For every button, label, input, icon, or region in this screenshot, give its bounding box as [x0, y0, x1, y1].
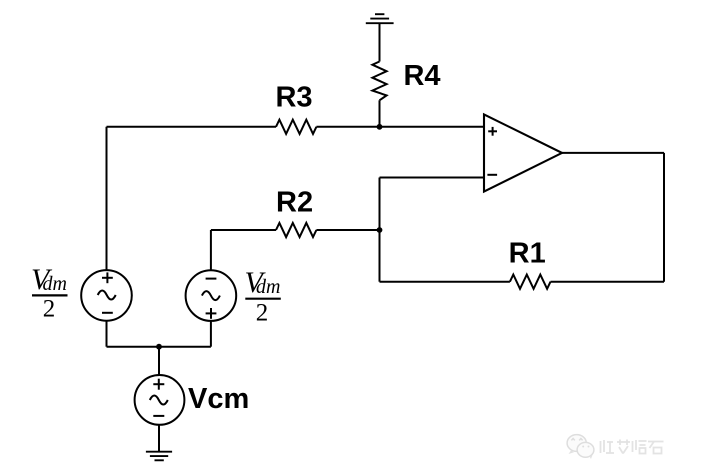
- junction: common rail / Vcm: [156, 344, 162, 350]
- ground (bottom, below Vcm): [146, 452, 172, 461]
- wire: inverting input to op-amp: [380, 177, 485, 179]
- svg-text:R1: R1: [509, 238, 546, 270]
- wire: right source bottom to common rail: [210, 321, 212, 347]
- resistor R4: [372, 62, 386, 101]
- wire: left source bottom to common rail: [106, 321, 108, 347]
- svg-text:Vcm: Vcm: [188, 383, 249, 415]
- wire: feedback bottom left segment: [380, 281, 510, 283]
- watermark: text 江苏润石: [601, 440, 664, 454]
- wire: op-amp output: [562, 152, 664, 154]
- svg-text:2: 2: [43, 296, 56, 323]
- wire: junction down to Vcm: [158, 347, 160, 375]
- svg-text:R2: R2: [276, 186, 313, 218]
- wire: top ground to R4: [379, 23, 381, 61]
- wire: R2 rail left segment: [211, 229, 276, 231]
- svg-text:2: 2: [256, 300, 269, 327]
- wire: R4 bottom to +input node: [379, 100, 381, 127]
- svg-text:R4: R4: [403, 60, 440, 92]
- resistor R1: [510, 275, 551, 289]
- junction: R4 / +input node: [377, 124, 383, 130]
- wire: Vcm bottom to ground: [158, 425, 160, 452]
- source V2 Vdm/2 (right): [186, 270, 237, 321]
- wire: R2 to inverting node: [316, 229, 379, 231]
- resistor R2: [276, 223, 316, 237]
- wire: inverting node vertical: [379, 178, 381, 282]
- wire: bottom common rail: [107, 346, 211, 348]
- ground (top, above R4): [366, 14, 394, 23]
- label Vdm/2 (right): [245, 266, 281, 327]
- source V3 Vcm: [135, 375, 185, 425]
- svg-text:dm: dm: [256, 276, 280, 298]
- wire: R3 to op-amp +input: [316, 126, 484, 128]
- svg-text:dm: dm: [43, 273, 67, 295]
- label Vdm/2 (left): [31, 263, 68, 323]
- wire: feedback right vertical: [663, 153, 665, 282]
- wire: feedback bottom right segment: [551, 281, 665, 283]
- resistor R3: [276, 120, 316, 134]
- source V1 Vdm/2 (left): [81, 270, 132, 321]
- op-amp U1: [484, 114, 562, 191]
- junction: R2 / feedback node: [377, 227, 383, 233]
- wire: left vertical from +rail down to Vdm/2 source: [106, 127, 108, 270]
- wire: right source top to R2 rail: [210, 230, 212, 270]
- svg-text:R3: R3: [275, 82, 312, 114]
- wire: noninverting input rail, left segment: [107, 126, 277, 128]
- watermark: WeChat icon: [567, 435, 594, 459]
